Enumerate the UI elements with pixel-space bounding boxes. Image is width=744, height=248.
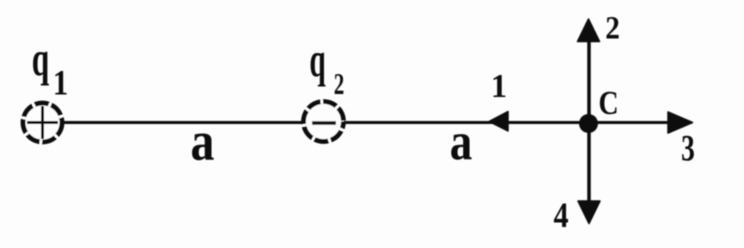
svg-text:1: 1	[53, 63, 68, 103]
svg-text:a: a	[450, 112, 473, 171]
wire: main horizontal line from q1 through q2 to arrowhead 3	[42, 121, 690, 124]
plus sign inside q1	[27, 121, 58, 124]
svg-text:3: 3	[681, 128, 695, 169]
svg-text:C: C	[598, 83, 618, 121]
svg-text:2: 2	[605, 9, 620, 46]
vector 4 arrowhead	[578, 201, 600, 224]
svg-text:4: 4	[553, 197, 568, 236]
node C dot	[579, 114, 598, 133]
svg-text:a: a	[191, 111, 215, 172]
vector 3 arrowhead (right end of line)	[668, 112, 693, 133]
vector 2 arrowhead	[578, 19, 600, 42]
svg-text:q: q	[309, 32, 326, 87]
svg-text:2: 2	[334, 66, 345, 101]
charge q1 (positive) circle	[23, 103, 62, 142]
minus sign inside q2	[312, 121, 336, 125]
vector 4 (down) shaft	[587, 124, 591, 203]
vector 1 arrowhead (pointing left along line)	[489, 112, 508, 132]
vector 2 (up) shaft	[587, 40, 591, 124]
charge q2 (negative) circle	[304, 102, 344, 142]
svg-text:1: 1	[491, 67, 507, 105]
svg-text:q: q	[32, 31, 50, 86]
